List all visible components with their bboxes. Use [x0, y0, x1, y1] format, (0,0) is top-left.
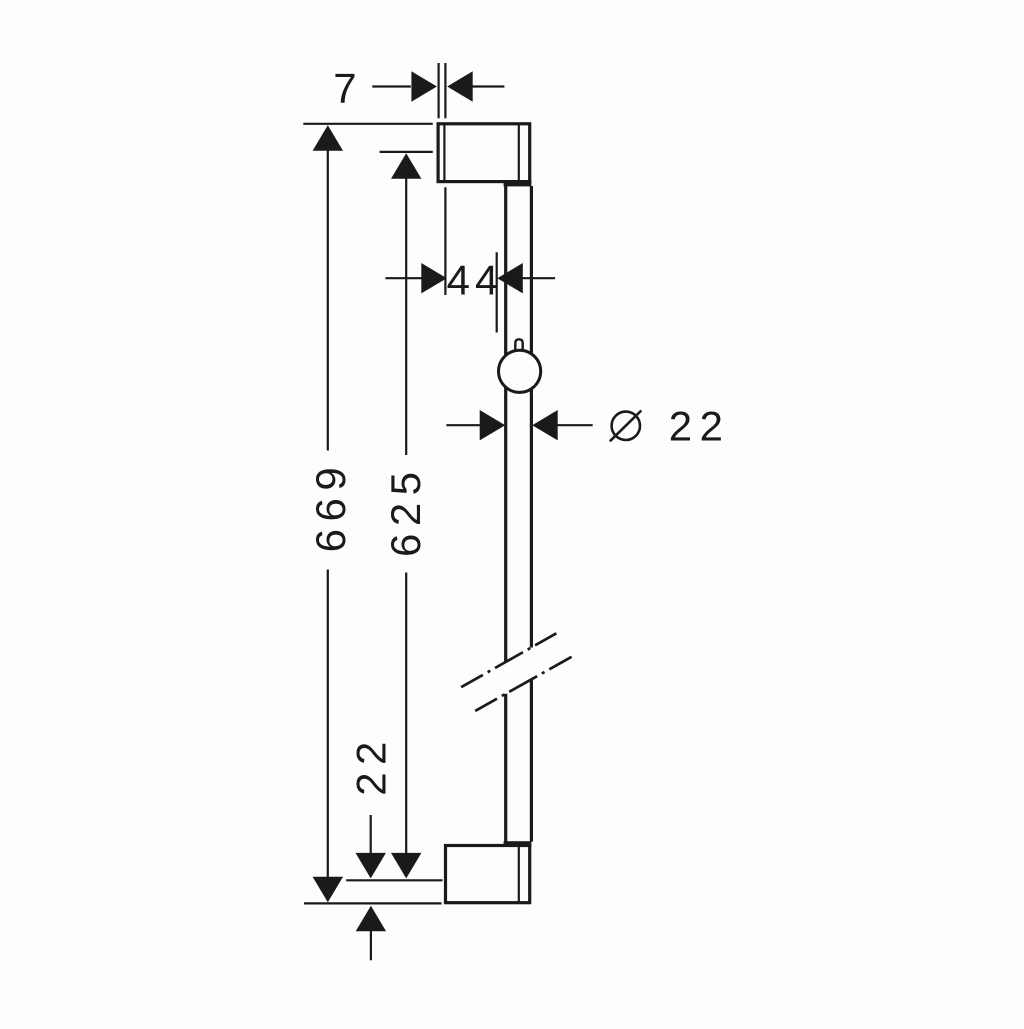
bottom wall bracket: inner line near rail	[518, 846, 520, 903]
slider knob: tab	[515, 339, 522, 355]
dimension 44: left extension line (wall plate)	[444, 187, 446, 295]
svg-text:22: 22	[669, 403, 731, 450]
top wall bracket: rail collar step	[504, 180, 532, 186]
dimension 625: dimension line upper segment	[405, 178, 407, 456]
dimension 44: left tail line	[385, 277, 421, 279]
dimension 669: dimension line lower segment	[327, 570, 329, 878]
svg-text:44: 44	[447, 257, 504, 304]
dimension 625: bottom arrow (points down)	[391, 853, 421, 879]
dimension 44: left arrow (points right)	[421, 263, 447, 293]
svg-text:22: 22	[347, 734, 394, 796]
svg-text:669: 669	[307, 460, 354, 553]
dimension diameter 22: left arrow (points right)	[480, 410, 506, 440]
dimension 625: dimension line lower segment	[405, 573, 407, 854]
dimension 22 bottom: upper tail line	[370, 815, 372, 853]
bottom wall bracket: outer box	[446, 846, 530, 903]
rail tube: right edge (upper segment)	[530, 186, 533, 648]
dimension 625: top arrow (points up)	[391, 153, 421, 179]
rail tube: left edge (upper segment)	[504, 186, 507, 662]
dimension 44: right tail line	[523, 277, 556, 279]
dimension 7: left tail line	[372, 85, 411, 87]
bottom wall bracket: rail collar step	[504, 841, 532, 847]
dimension diameter 22: left tail line	[446, 424, 480, 426]
extension line: top of rail assembly (669 reference)	[303, 123, 433, 125]
dimension 669: bottom arrow (points down)	[313, 877, 343, 903]
dimension diameter 22: right tail line	[558, 424, 593, 426]
pipe break: upper dash-dot diagonal	[461, 633, 556, 687]
dimension 22 bottom: upper arrow (points down)	[356, 853, 386, 879]
svg-text:625: 625	[382, 464, 429, 557]
extension line: bottom of 625 span	[346, 879, 442, 881]
dimension 7: left arrow (points right)	[411, 71, 437, 101]
slider knob: circular handle	[498, 350, 540, 392]
rail tube: right edge (lower segment)	[530, 680, 533, 842]
dimension 44: right arrow (points left)	[497, 263, 523, 293]
dimension 7: extension line left	[438, 63, 440, 118]
top wall bracket: wall plate inner line	[443, 124, 445, 182]
dimension diameter 22: diameter symbol	[610, 411, 642, 442]
dimension 44: right extension line (knob front)	[496, 252, 498, 332]
rail tube: left edge (lower segment)	[504, 694, 507, 842]
top wall bracket: outer box	[438, 124, 530, 182]
pipe break: lower dash-dot diagonal	[475, 657, 571, 711]
dimension 7: right tail line	[472, 85, 504, 87]
dimension 7: extension line right	[444, 63, 446, 118]
dimension 7: right arrow (points left)	[447, 71, 473, 101]
dimension diameter 22: right arrow (points left)	[532, 410, 558, 440]
extension line: bottom of 669 span	[304, 902, 442, 904]
svg-text:7: 7	[333, 64, 356, 111]
dimension 22 bottom: lower tail line	[370, 931, 372, 961]
top wall bracket: inner line near rail	[518, 124, 520, 182]
dimension 22 bottom: lower arrow (points up)	[356, 906, 386, 932]
extension line: top of 625 reference	[380, 151, 433, 153]
dimension 669: top arrow (points up)	[313, 125, 343, 151]
dimension 669: dimension line upper segment	[327, 150, 329, 450]
